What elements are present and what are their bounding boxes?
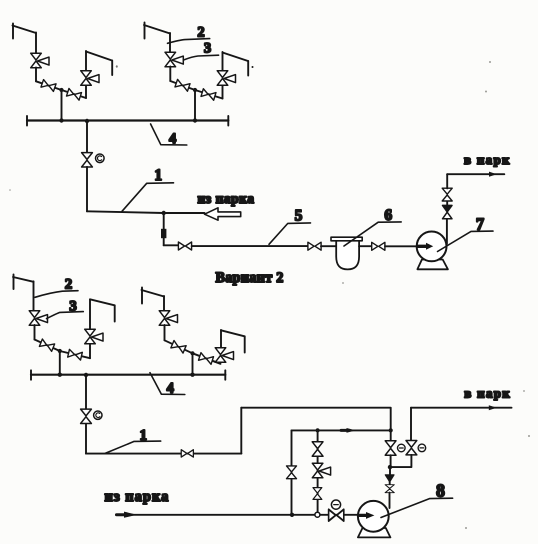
motorized valve MV-T actuator curl [97, 156, 101, 161]
riser pipe lower, pair T2 right [222, 86, 224, 99]
label 6 leader [344, 222, 401, 246]
svg-text:3: 3 [204, 40, 211, 56]
wire corner to line 5 [164, 244, 179, 246]
wire slant left, pair B2 [165, 340, 193, 353]
standpipe hook, pair B2 left [142, 290, 165, 297]
svg-text:6: 6 [384, 207, 392, 224]
standpipe hook, pair T1 right [86, 52, 112, 61]
wire pump 7 discharge [446, 219, 448, 244]
wire valve to pump 7 [385, 245, 418, 247]
wire check to gate [389, 482, 391, 485]
manifold left tick [26, 116, 28, 126]
wire to park bottom [411, 407, 512, 409]
valve on line 5 first [178, 242, 191, 250]
wire discharge upper [446, 174, 448, 188]
wire line 5 [192, 245, 308, 247]
valve on slant, pair T2 left [175, 79, 190, 91]
wire MV2 down and left to junction [390, 455, 411, 467]
standpipe hook, pair T2 right [223, 53, 249, 62]
node left bypass on bottom line [290, 513, 294, 517]
manifold line 4 top [27, 119, 228, 121]
valve on left bypass [287, 466, 297, 479]
label 7 leader [438, 231, 494, 251]
wire recirculation branch [292, 429, 391, 431]
valve on slant, pair T1 right [66, 88, 81, 100]
node B2 on manifold [190, 373, 194, 377]
svg-text:1: 1 [140, 427, 148, 443]
wire junction down [163, 213, 165, 245]
svg-text:3: 3 [69, 298, 77, 314]
riser pipe lower, pair T2 left [169, 67, 171, 82]
svg-text:из парка: из парка [198, 191, 255, 206]
label 5 leader [269, 223, 311, 244]
node line1 junction [162, 211, 166, 215]
standpipe hook tick, pair B1 left [13, 275, 15, 290]
wire line 1 up corner [240, 408, 242, 454]
wire left bypass vertical [291, 430, 293, 514]
wire mid bypass vertical [317, 430, 319, 512]
wire valve to vessel [321, 245, 337, 247]
valve on slant, pair B1 left [39, 339, 54, 351]
riser pipe, pair T2 left [169, 33, 171, 53]
riser pipe, pair B1 right [89, 300, 91, 330]
label 1 leader [122, 183, 174, 212]
wire line 1 horizontal [87, 211, 164, 213]
valve V-B2R on riser [215, 348, 233, 363]
wire junction to inlet arrow [164, 212, 205, 214]
valve on slant, pair B2 left [171, 341, 186, 354]
wire vertical x411 upper [410, 408, 412, 441]
check valve filled triangle [385, 475, 394, 482]
wire motor valve down to line 1 [86, 167, 88, 212]
node junction pair B1 [58, 349, 62, 353]
manifold bottom left tick [30, 370, 32, 379]
svg-text:8: 8 [436, 481, 445, 501]
wire drop pair B2 to manifold [192, 353, 194, 374]
pump 8 inlet arrowhead [366, 512, 374, 519]
pump 8 casing [358, 501, 389, 532]
wire iz parka bottom line [116, 514, 359, 516]
motorized valve MV2 dash [420, 447, 424, 449]
pump 7 inlet arrowhead [426, 243, 433, 250]
standpipe hook tick, pair T2 right [247, 61, 249, 76]
wire vertical x390 upper [390, 408, 392, 441]
wire drop pair T1 to manifold [61, 90, 63, 121]
motorized valve MV-B actuator circle [94, 411, 102, 419]
wire junction to check [389, 467, 391, 475]
standpipe hook tick, pair T2 left [144, 23, 146, 39]
valve mid bypass lower [313, 488, 322, 500]
manifold right tick [227, 116, 229, 126]
svg-text:2: 2 [197, 24, 204, 40]
valve on slant, pair B1 right [68, 349, 83, 360]
wire gate to pump 8 [389, 493, 391, 508]
svg-text:в парк: в парк [464, 152, 511, 167]
motorized valve MV1 dash [399, 447, 403, 449]
standpipe hook tick, pair B2 right [244, 336, 246, 352]
pump 7 base [417, 260, 448, 270]
check valve open half [443, 212, 453, 219]
label 3 leader [184, 55, 219, 60]
svg-text:2: 2 [65, 276, 73, 292]
standpipe hook tick, pair T1 left [12, 24, 14, 39]
wire bottom manifold to motor valve [85, 375, 87, 409]
valve V-B2L on riser [159, 311, 177, 326]
gate valve above pump 8 [385, 485, 394, 493]
label 2 leader bottom [35, 291, 78, 298]
arrow on iz parka line tail [117, 513, 125, 516]
motorized valve MV1 circle [398, 444, 406, 452]
speck near T1 right hook [116, 66, 118, 68]
riser pipe lower, pair B2 left [164, 325, 166, 340]
riser pipe lower, pair B1 left [34, 325, 36, 340]
wire drop pair T2 to manifold [194, 90, 196, 121]
node T1 on manifold [59, 118, 63, 122]
valve on line 1 bottom [181, 450, 193, 457]
node pump discharge junction [388, 465, 392, 469]
label 8 leader [381, 498, 453, 517]
svg-text:4: 4 [167, 380, 174, 396]
standpipe hook tick, pair T1 right [111, 61, 113, 76]
motorized valve MV2 hourglass [406, 441, 417, 455]
node junction pair T2 [193, 88, 197, 92]
vessel 6 lid [331, 237, 362, 241]
manifold line 4 bottom [31, 374, 225, 376]
riser pipe lower, pair T1 left [35, 68, 37, 82]
riser pipe, pair B2 left [163, 296, 165, 311]
globe valve on bottom line bowtie [329, 509, 344, 521]
valve V-B1L on riser [29, 311, 47, 326]
arrow to park bottom [489, 405, 497, 410]
vessel 6 body [336, 241, 359, 269]
wire slant right, pair B1 [60, 351, 90, 358]
wire between valves [446, 201, 448, 206]
label 1 leader bottom [105, 441, 160, 453]
globe valve mid bypass [312, 463, 330, 478]
wire slant right, pair B2 [193, 353, 221, 364]
arrow on branch [347, 428, 357, 433]
wire MV1 to junction [390, 455, 392, 467]
valve on slant, pair B2 right [198, 353, 213, 365]
motorized valve MV-T actuator circle [96, 154, 105, 163]
pump 7 casing [417, 232, 447, 262]
wire slant left, pair T2 [170, 81, 195, 90]
standpipe hook, pair B1 right [90, 299, 115, 305]
svg-text:из парка: из парка [105, 489, 170, 505]
label 2 leader [168, 39, 210, 44]
check blob on drop [161, 229, 166, 238]
motorized valve MV-B hourglass [81, 409, 92, 423]
valve on line 5 second [308, 242, 321, 250]
manifold bottom right tick [224, 370, 226, 379]
valve on slant, pair T2 right [201, 89, 216, 101]
arrow to park top [489, 172, 497, 177]
riser pipe, pair T1 right [85, 51, 87, 71]
standpipe hook, pair B1 left [13, 277, 34, 282]
riser pipe, pair T1 left [35, 33, 37, 54]
node junction pair T1 [59, 88, 63, 92]
wire slant right, pair T1 [62, 90, 87, 98]
standpipe hook, pair B2 right [221, 330, 245, 336]
motorized valve MV-T hourglass [82, 153, 93, 167]
pump 7 inlet arrow [418, 245, 427, 248]
label 3 leader bottom [47, 312, 84, 319]
svg-text:5: 5 [295, 207, 303, 224]
valve V-B1R on riser [85, 329, 103, 344]
svg-text:Вариант 2: Вариант 2 [216, 270, 284, 286]
label 4 leader bottom [150, 373, 185, 395]
riser pipe, pair T2 right [222, 52, 224, 71]
wire motor valve down to line 1 bottom [85, 424, 87, 453]
motorized valve MV1 hourglass [385, 441, 396, 455]
pump 8 inlet arrow tail [359, 514, 367, 517]
check valve filled half [443, 205, 453, 212]
valve V-T1R on riser [81, 71, 99, 86]
svg-text:4: 4 [169, 131, 176, 147]
gate valve on discharge [442, 188, 452, 201]
riser pipe lower, pair T1 right [85, 86, 87, 99]
wire top run to tee [241, 407, 390, 409]
motorized valve MV2 circle [418, 444, 426, 452]
standpipe hook, pair T1 left [13, 26, 37, 34]
arrow on iz parka line head [124, 512, 137, 518]
node T2 on manifold [193, 118, 197, 122]
motorized valve MV-B actuator curl [96, 413, 100, 418]
standpipe hook tick, pair B2 left [141, 288, 143, 304]
valve V-T2L on riser [165, 52, 183, 67]
wire to park top [447, 173, 504, 175]
node junction pair B2 [190, 351, 194, 355]
standpipe hook, pair T2 left [144, 25, 170, 34]
wire manifold to motor valve [86, 121, 88, 153]
valve V-T2R on riser [217, 71, 235, 86]
node tee at right [389, 428, 393, 432]
valve V-T1L on riser [31, 53, 49, 68]
valve on slant, pair T1 left [41, 80, 56, 92]
pump 8 base [358, 528, 391, 537]
node B1 on manifold [58, 373, 62, 377]
label 4 leader [151, 124, 187, 145]
riser pipe, pair B1 left [33, 281, 35, 311]
riser pipe lower, pair B1 right [89, 344, 91, 358]
wire slant left, pair T1 [36, 81, 62, 90]
riser pipe, pair B2 right [220, 330, 222, 348]
block arrow from park [205, 208, 241, 220]
tail on branch arrow [341, 429, 347, 432]
globe valve actuator dash [334, 504, 338, 506]
globe valve actuator circle [331, 500, 340, 509]
speck near T2 right hook [252, 66, 254, 68]
valve mid bypass upper [312, 442, 323, 456]
node feed on bottom manifold [84, 373, 88, 377]
wire slant left, pair B1 [35, 340, 60, 352]
open node mid bypass on bottom line [315, 512, 320, 517]
node branch mid [316, 428, 320, 432]
svg-text:1: 1 [154, 167, 162, 184]
node feed on manifold [85, 119, 89, 123]
svg-text:7: 7 [476, 214, 484, 233]
wire vessel to valve [359, 245, 372, 247]
standpipe hook tick, pair B1 right [114, 305, 116, 321]
wire line 1 bottom horizontal [86, 453, 241, 455]
wire slant right, pair T2 [195, 90, 223, 99]
valve after vessel [372, 242, 385, 250]
svg-text:в парк: в парк [464, 385, 511, 400]
wire drop pair B1 to manifold [59, 351, 61, 375]
